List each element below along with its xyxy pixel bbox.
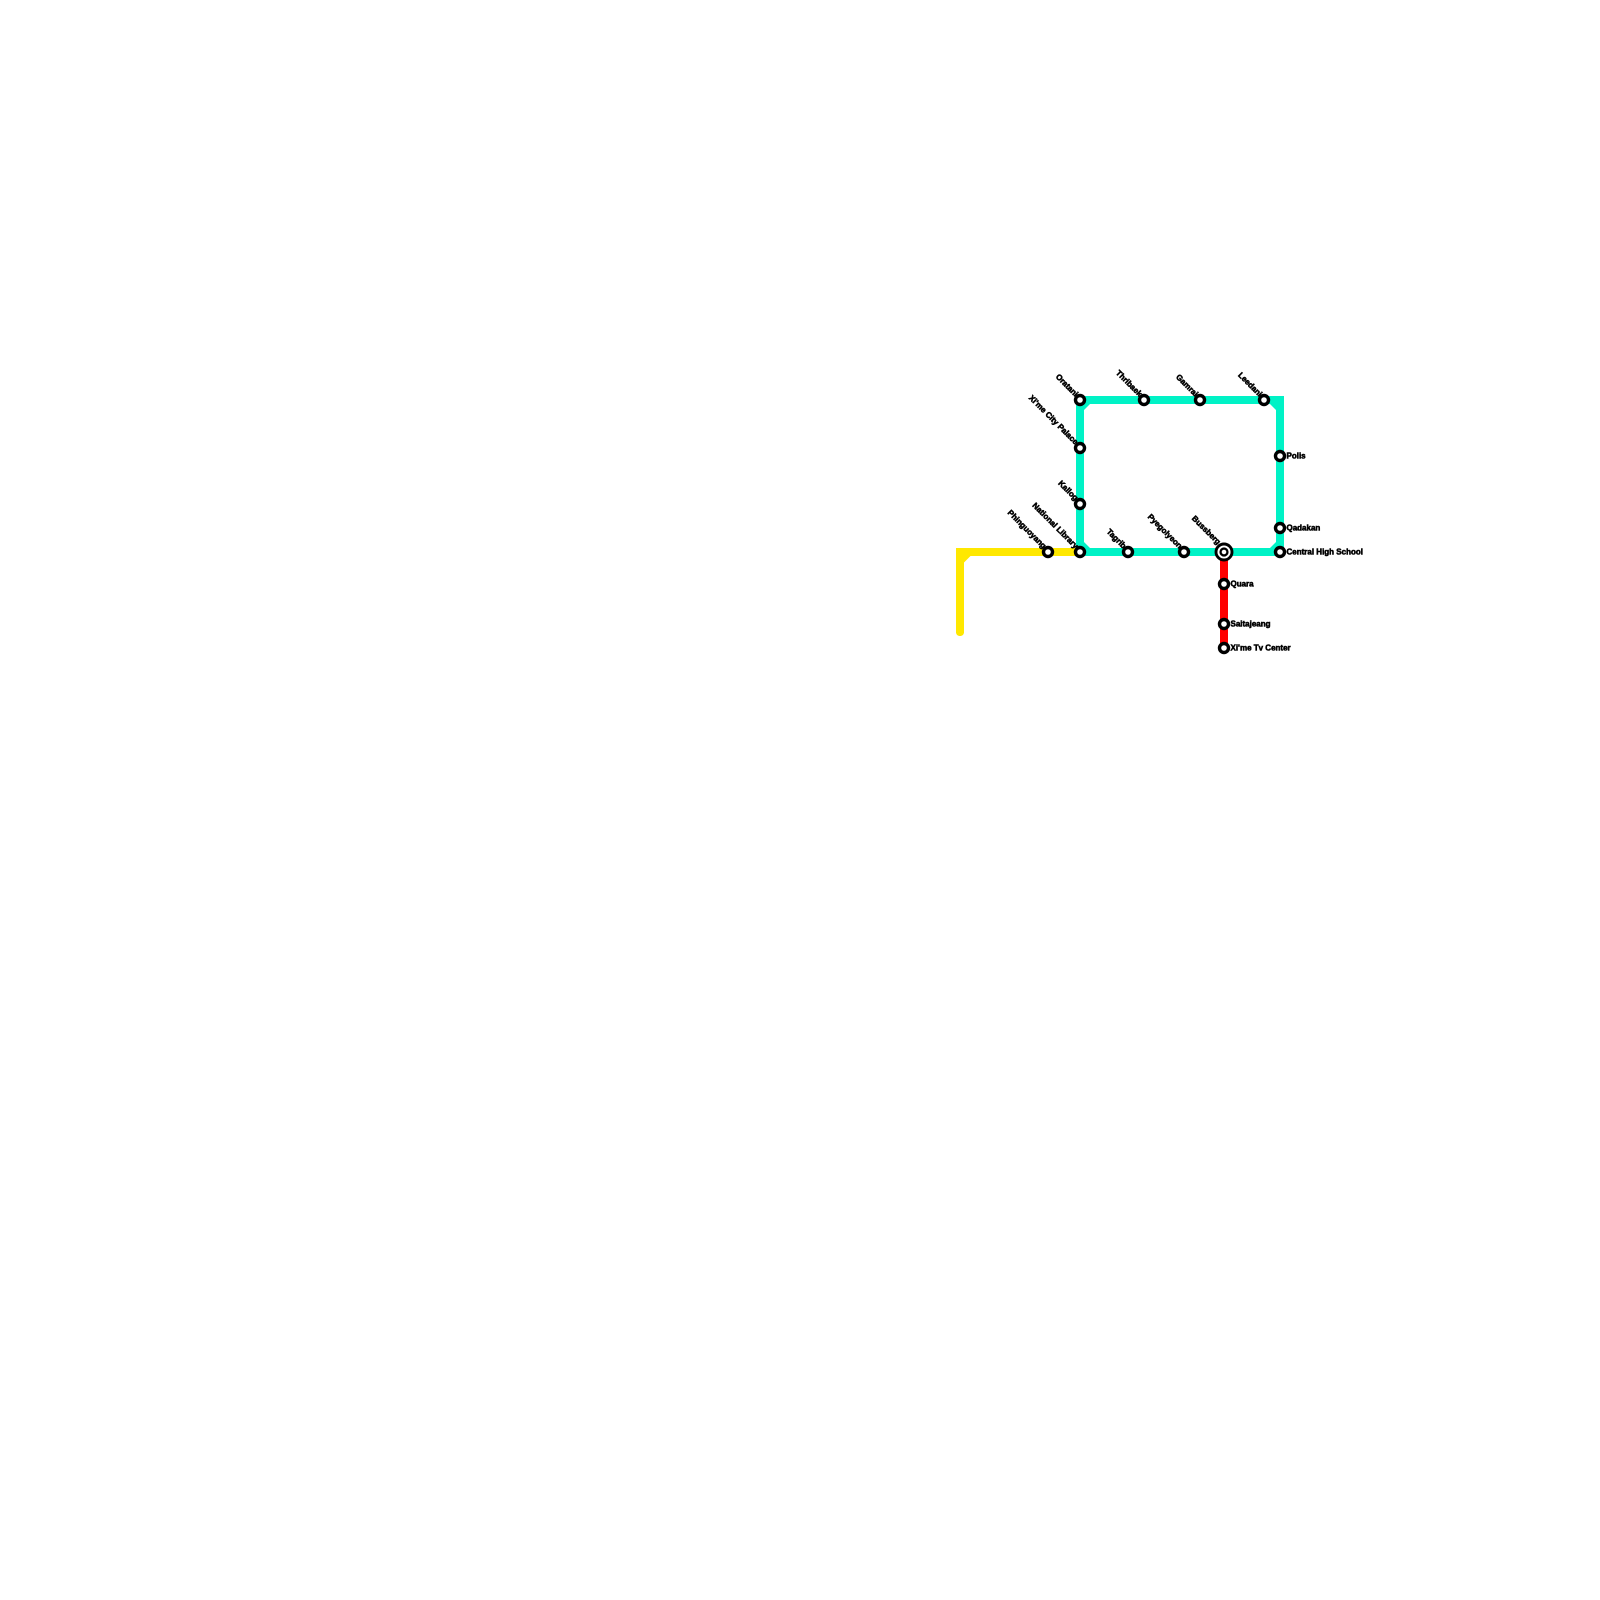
station Oratani bbox=[1076, 396, 1085, 405]
svg-text:Central High School: Central High School bbox=[1287, 548, 1363, 557]
hub Bussberg interchange bbox=[1216, 544, 1232, 560]
svg-text:Polis: Polis bbox=[1287, 452, 1307, 461]
yellow line bbox=[956, 548, 1080, 636]
station Tagrib bbox=[1124, 548, 1133, 557]
svg-text:Quara: Quara bbox=[1231, 580, 1255, 589]
station Gamrai bbox=[1196, 396, 1205, 405]
station Polis bbox=[1276, 452, 1285, 461]
station Kallog bbox=[1076, 500, 1085, 509]
station Pyegolyeon bbox=[1180, 548, 1189, 557]
station Xi'me City Palace bbox=[1076, 444, 1085, 453]
svg-text:Xi'me Tv Center: Xi'me Tv Center bbox=[1231, 644, 1291, 653]
red line bbox=[1220, 552, 1228, 648]
station Leedani bbox=[1260, 396, 1269, 405]
station Xi'me Tv Center bbox=[1220, 644, 1229, 653]
svg-text:Qadakan: Qadakan bbox=[1287, 524, 1321, 533]
svg-text:Saitajeang: Saitajeang bbox=[1231, 620, 1271, 629]
station Phinguoyang bbox=[1044, 548, 1053, 557]
station National Library bbox=[1076, 548, 1085, 557]
turquoise loop line bbox=[1076, 396, 1284, 556]
station Saitajeang bbox=[1220, 620, 1229, 629]
station Qadakan bbox=[1276, 524, 1285, 533]
station Quara bbox=[1220, 580, 1229, 589]
station Central High School bbox=[1276, 548, 1285, 557]
station Thribaek bbox=[1140, 396, 1149, 405]
